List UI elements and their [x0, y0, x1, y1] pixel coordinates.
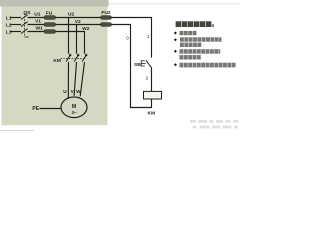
svg-text:0: 0: [126, 35, 129, 40]
svg-text:FU2: FU2: [101, 10, 111, 16]
bullet 2 line 1: [180, 37, 222, 41]
bullet 3 diamond: [174, 50, 177, 53]
wire L3 phase line: [10, 31, 85, 33]
top grey band: [0, 0, 109, 7]
pushbutton SB operator: [141, 60, 145, 66]
svg-text:U1: U1: [34, 11, 41, 17]
switch QS linkage dashed: [24, 14, 28, 38]
bullet 2 diamond: [174, 38, 177, 41]
fuse FU1a: [44, 16, 56, 20]
wire PE: [40, 108, 62, 110]
svg-text:KM: KM: [53, 58, 60, 64]
svg-text:KM: KM: [148, 110, 155, 116]
wire coil to bottom: [151, 99, 153, 108]
wire control branch 0: [131, 25, 153, 108]
svg-text:FU: FU: [46, 10, 53, 16]
wire drop U: [68, 18, 70, 54]
switch QS blades: [21, 15, 28, 34]
contactor KM main contact 3: [82, 54, 87, 62]
svg-text:L2: L2: [6, 23, 12, 29]
schematic green panel: [2, 7, 108, 126]
bullet 4 text: [180, 63, 236, 68]
coil KM rectangle: [144, 91, 162, 99]
svg-text:U2: U2: [68, 12, 75, 18]
fuse FU2a: [101, 16, 112, 20]
svg-text:QS: QS: [23, 10, 31, 16]
wire drop V: [76, 25, 78, 54]
bullet 1 diamond: [174, 32, 177, 35]
bullet 4 diamond: [174, 63, 177, 66]
contactor KM linkage dashed: [61, 58, 87, 60]
wire motor lead U: [67, 62, 69, 98]
wire L2 phase line: [10, 24, 131, 26]
svg-text:2: 2: [146, 76, 149, 81]
fuse FU2b: [101, 23, 112, 27]
svg-text:V2: V2: [75, 19, 81, 25]
svg-text:W2: W2: [82, 26, 90, 32]
fuse FU1b: [44, 23, 56, 27]
svg-text:SB: SB: [134, 62, 141, 68]
svg-text:V1: V1: [35, 19, 41, 25]
svg-text:W: W: [76, 89, 81, 94]
wire motor lead W: [80, 62, 84, 96]
motor M ellipse: [61, 97, 87, 118]
wire SB to coil: [151, 68, 153, 92]
watermark line 2: [193, 126, 239, 129]
svg-text:1: 1: [147, 34, 150, 39]
contactor KM main contact 1: [66, 54, 71, 62]
svg-text:PE: PE: [32, 106, 39, 112]
faint rule bottom left: [0, 129, 34, 132]
faint rule top right: [109, 2, 241, 5]
fuse FU1c: [44, 30, 56, 34]
bullet 3 line 2: [180, 55, 201, 59]
wire motor lead V: [74, 62, 76, 96]
wire drop W: [84, 32, 86, 54]
svg-text:3~: 3~: [71, 110, 77, 115]
svg-text:W1: W1: [36, 26, 44, 32]
bullet 1 text: [180, 31, 197, 35]
watermark line 1: [190, 120, 238, 123]
bullet 2 line 2: [180, 43, 201, 47]
wire control branch 1: [151, 18, 153, 58]
title working-principle analysis: [176, 21, 214, 27]
svg-text:L1: L1: [6, 15, 12, 21]
contactor KM main contact 2: [74, 54, 79, 62]
bullet 3 line 1: [180, 49, 221, 54]
wire L1 phase line: [10, 17, 152, 19]
svg-text:L3: L3: [6, 30, 12, 36]
pushbutton SB blade: [146, 60, 152, 68]
